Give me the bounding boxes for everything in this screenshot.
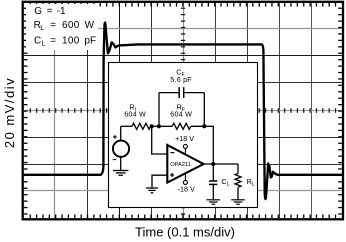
- graticule horizontal lines: [24, 29, 342, 191]
- wire: source top to main node row: [120, 126, 122, 141]
- inset box: [109, 63, 258, 208]
- wire: inverting input branch: [152, 126, 168, 154]
- wire: CF branch right horizontal: [184, 92, 204, 94]
- wire: CF branch left vertical: [158, 93, 160, 127]
- node: junction CF left branch: [157, 124, 161, 128]
- svg-text:604 W: 604 W: [124, 110, 146, 119]
- capacitor CF: [178, 87, 180, 98]
- svg-text:OPA211: OPA211: [170, 162, 191, 168]
- waveform trace: [23, 23, 343, 200]
- white patch behind corner text: [26, 4, 98, 50]
- op-amp U1 OPA211: [167, 145, 203, 183]
- svg-text:L: L: [42, 40, 46, 47]
- corner annotation text: [34, 6, 96, 47]
- svg-text:604 W: 604 W: [170, 110, 192, 119]
- svg-text:=: =: [50, 35, 56, 46]
- ground: non-inverting input: [146, 188, 158, 193]
- resistor RI: [132, 123, 151, 129]
- wire: CF branch left horizontal: [159, 92, 179, 94]
- wire: RL lower stem: [237, 188, 239, 200]
- svg-text:W: W: [85, 20, 95, 31]
- svg-text:100: 100: [62, 35, 80, 46]
- svg-text:pF: pF: [84, 35, 96, 46]
- power terminal +18 V (V+ pin): [183, 144, 187, 148]
- op-amp U1 non-inverting input plus sign: [170, 173, 174, 177]
- wire: non-inverting input to ground: [152, 175, 167, 188]
- power terminal -18 V (V- pin): [183, 180, 187, 184]
- svg-text:600: 600: [62, 20, 80, 31]
- ground: under source VIN: [113, 171, 128, 176]
- svg-text:20 mV/div: 20 mV/div: [2, 77, 17, 148]
- svg-text:C: C: [34, 35, 41, 46]
- wire: RI to RF: [151, 125, 173, 127]
- svg-text:-18 V: -18 V: [178, 184, 195, 193]
- svg-text:+18 V: +18 V: [175, 134, 194, 143]
- wire: RL upper stem: [237, 164, 239, 174]
- node: output junction to CL: [211, 162, 215, 166]
- wire: CF branch right vertical down to node: [203, 93, 205, 127]
- source VIN plus polarity mark: [113, 135, 117, 139]
- ground: under RL: [231, 200, 245, 204]
- wire: RF to corner, down to output: [191, 126, 214, 164]
- node: junction RI / inverting-input branch: [150, 124, 154, 128]
- svg-text:Time (0.1 ms/div): Time (0.1 ms/div): [135, 225, 235, 240]
- capacitor CL: [209, 180, 217, 182]
- svg-text:L: L: [40, 25, 44, 32]
- resistor RL: [235, 174, 241, 188]
- svg-text:-1: -1: [57, 6, 66, 17]
- op-amp U1 inverting input minus sign: [171, 152, 175, 154]
- wire: CL stem to ground: [212, 185, 214, 200]
- ground: under CL: [207, 200, 221, 204]
- source VIN minus polarity mark: [113, 159, 117, 161]
- wire: op-amp output: [204, 163, 239, 165]
- svg-text:=: =: [47, 6, 53, 17]
- center vertical axis tick dashes (x=182.4): [181, 8, 185, 214]
- center horizontal axis tick dashes (y=110.2): [30, 108, 335, 113]
- graticule vertical lines: [55, 3, 312, 218]
- wire: main row left segment: [121, 125, 132, 127]
- resistor RF: [172, 123, 191, 129]
- svg-text:G: G: [34, 6, 42, 17]
- source VIN: [113, 141, 129, 157]
- wire: source stem to ground: [120, 157, 122, 171]
- svg-text:5.6 pF: 5.6 pF: [170, 75, 192, 84]
- node: junction RF / CF right branch: [202, 124, 206, 128]
- svg-text:=: =: [50, 20, 56, 31]
- wire: CL branch vertical: [212, 164, 214, 181]
